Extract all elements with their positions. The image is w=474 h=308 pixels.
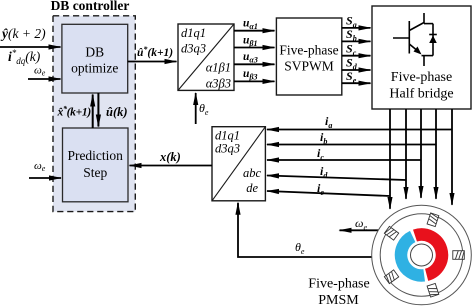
svg-text:α3β3: α3β3: [206, 77, 231, 91]
wire i_c: [267, 159, 421, 161]
phase wire a (down from bridge): [389, 109, 391, 209]
svg-text:optimize: optimize: [71, 61, 118, 76]
svg-text:DB controller: DB controller: [51, 0, 130, 13]
coil at 288deg: [427, 283, 439, 297]
wire u_alpha1: [234, 30, 275, 32]
svg-text:x̂*(k+1): x̂*(k+1): [57, 105, 92, 119]
wire x*(k+1) up arrow: [92, 95, 94, 129]
rotor ring blue arc: [401, 237, 424, 276]
block transform d1q1/d3q3 to abc/de: [212, 127, 265, 201]
wire theta_e stub into transform1: [195, 93, 197, 124]
wire u_beta3: [234, 80, 275, 82]
diode triangle: [429, 36, 437, 44]
svg-text:SVPWM: SVPWM: [284, 59, 334, 74]
top wire to diode: [424, 23, 433, 25]
wire x(k): [130, 165, 213, 167]
wire S_d: [342, 69, 371, 71]
svg-text:abc: abc: [243, 166, 262, 180]
collector slant: [409, 23, 424, 31]
wire S_b: [342, 40, 371, 42]
wire S_c: [342, 55, 371, 57]
IGBT symbol: [393, 13, 437, 66]
diode branch: [432, 24, 434, 56]
svg-text:ŷ(k + 2): ŷ(k + 2): [0, 26, 46, 41]
rotor ring red arc: [415, 235, 442, 275]
svg-text:Half bridge: Half bridge: [389, 87, 453, 102]
svg-text:Step: Step: [83, 165, 107, 180]
bottom wire: [422, 55, 434, 57]
wire y*(k+2) input: [0, 46, 61, 48]
wire i_b: [267, 144, 436, 146]
svg-text:d3q3: d3q3: [215, 142, 240, 156]
emitter arrowhead: [414, 47, 422, 55]
wire u_beta1: [234, 47, 275, 49]
coil at 0deg: [453, 251, 465, 260]
svg-text:û*(k+1): û*(k+1): [137, 45, 173, 59]
svg-text:d3q3: d3q3: [181, 42, 206, 56]
phase wire d: [435, 109, 437, 199]
svg-text:û(k): û(k): [106, 105, 128, 119]
motor stator inner circle: [380, 214, 463, 297]
block DB optimize: [62, 24, 128, 93]
wire u_alpha3: [234, 63, 275, 65]
phase wire e: [451, 109, 453, 205]
arrow theta_e up: [237, 203, 239, 210]
svg-text:α1β1: α1β1: [206, 61, 231, 75]
svg-text:d1q1: d1q1: [215, 129, 240, 143]
wire S_e: [342, 82, 371, 84]
wire omega_e from motor: [340, 229, 379, 231]
svg-text:d1q1: d1q1: [181, 26, 206, 40]
coil at 72deg: [427, 213, 439, 227]
svg-text:Five-phase: Five-phase: [308, 277, 369, 292]
wire theta_e from motor: [238, 204, 372, 258]
wire u(k) down arrow: [97, 93, 99, 127]
emitter slant: [409, 44, 419, 52]
coil at 216deg: [384, 270, 398, 284]
svg-text:DB: DB: [85, 45, 104, 60]
wire i_e: [267, 191, 390, 196]
svg-text:de: de: [246, 181, 258, 195]
phase wire c: [420, 109, 422, 198]
block Five-phase Half bridge: [372, 6, 471, 109]
svg-text:PMSM: PMSM: [318, 293, 359, 308]
svg-text:Five-phase: Five-phase: [391, 70, 452, 85]
rotor shaft circle: [411, 244, 433, 266]
block Prediction Step: [63, 128, 129, 202]
block transform d1q1/d3q3 to alpha-beta: [178, 24, 234, 91]
svg-text:x(k): x(k): [159, 150, 181, 164]
wire i_a: [267, 129, 452, 131]
emitter bottom lead: [423, 56, 425, 66]
wire omega_e to Prediction Step: [29, 177, 61, 179]
wire S_a: [342, 27, 371, 29]
wire u*(k+1): [128, 61, 177, 63]
wire omega_e to DB optimize: [28, 78, 61, 80]
DB controller dashed container: [53, 16, 135, 212]
gate lead: [393, 37, 409, 39]
motor outer circle: [372, 205, 472, 305]
svg-text:Five-phase: Five-phase: [279, 43, 338, 58]
collector top lead: [423, 13, 425, 24]
wire i_d: [267, 176, 406, 181]
block Five-phase SVPWM: [276, 18, 341, 95]
diode cathode bar: [429, 34, 437, 36]
phase wire b: [405, 109, 407, 199]
svg-text:Prediction: Prediction: [67, 148, 123, 163]
gate bar: [408, 21, 410, 54]
coil at 144deg: [384, 226, 398, 240]
